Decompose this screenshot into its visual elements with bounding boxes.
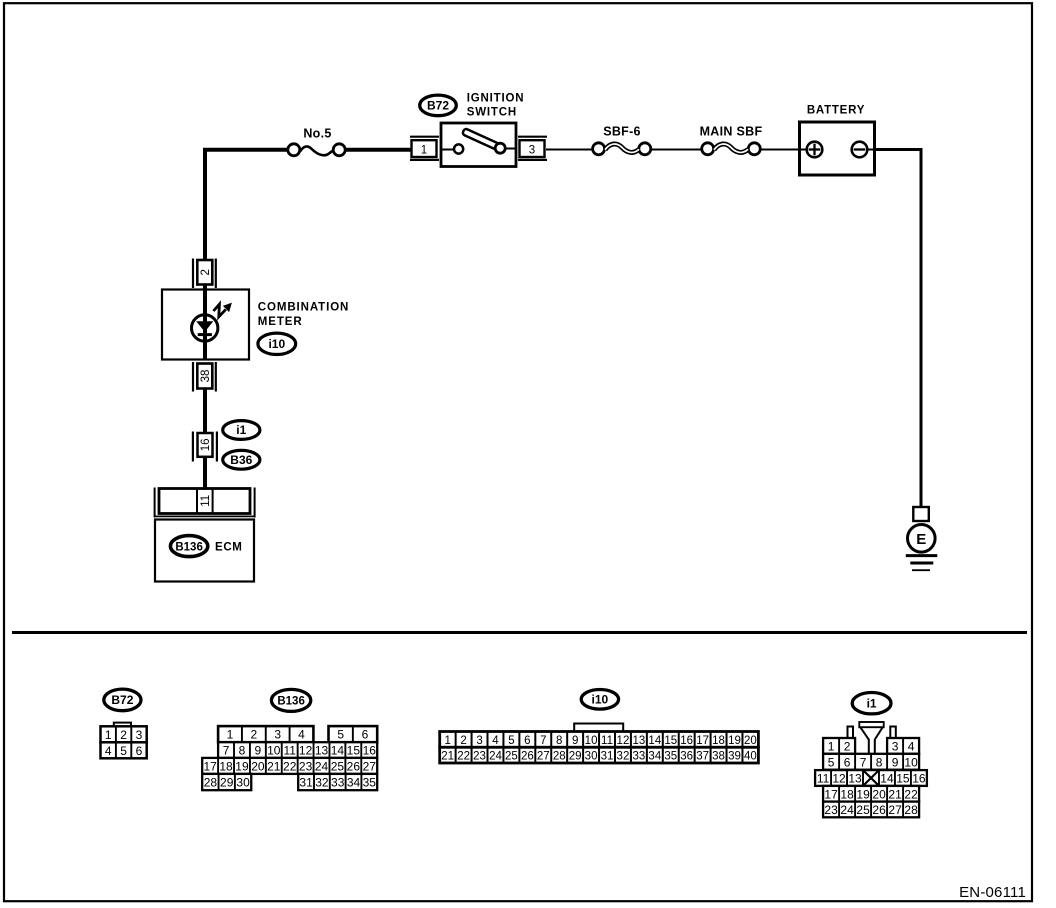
- wire: pin 16 to ECM pin 11: [203, 456, 207, 490]
- svg-text:24: 24: [315, 759, 329, 773]
- svg-text:2: 2: [251, 728, 258, 742]
- svg-text:2: 2: [200, 269, 212, 275]
- switch lever: [462, 128, 502, 151]
- svg-text:24: 24: [840, 803, 854, 817]
- svg-text:33: 33: [331, 776, 345, 790]
- svg-text:24: 24: [489, 751, 502, 763]
- svg-text:33: 33: [632, 751, 645, 763]
- svg-text:34: 34: [648, 751, 661, 763]
- connector oval i10 (pinout): [581, 690, 618, 710]
- svg-text:4: 4: [492, 735, 499, 747]
- svg-text:BATTERY: BATTERY: [807, 104, 865, 116]
- LED lamp (illumination): [192, 314, 218, 342]
- B136 pinout row 5-6: [329, 726, 378, 742]
- svg-text:16: 16: [363, 744, 377, 758]
- svg-text:22: 22: [904, 787, 918, 801]
- svg-text:8: 8: [239, 744, 246, 758]
- svg-text:1: 1: [105, 728, 112, 742]
- LED emission arrow: [213, 303, 232, 317]
- battery: [800, 122, 875, 175]
- connector oval B72: [420, 95, 457, 116]
- svg-text:31: 31: [299, 776, 313, 790]
- svg-text:SWITCH: SWITCH: [467, 106, 517, 118]
- svg-text:13: 13: [315, 744, 329, 758]
- wire: ignition switch pin 3 to SBF-6 fuse: [546, 149, 593, 151]
- svg-text:30: 30: [585, 751, 598, 763]
- svg-text:14: 14: [880, 772, 894, 786]
- connector oval B36: [223, 450, 260, 469]
- svg-text:23: 23: [473, 751, 486, 763]
- svg-text:i1: i1: [236, 423, 246, 437]
- svg-text:21: 21: [267, 759, 281, 773]
- svg-text:18: 18: [712, 735, 725, 747]
- svg-text:18: 18: [219, 759, 233, 773]
- svg-text:5: 5: [337, 728, 344, 742]
- svg-text:9: 9: [892, 755, 899, 769]
- svg-text:13: 13: [848, 772, 862, 786]
- svg-text:i10: i10: [268, 337, 285, 351]
- wire through meter: [203, 289, 207, 360]
- svg-text:10: 10: [267, 744, 281, 758]
- ground symbol: [906, 556, 938, 571]
- svg-text:12: 12: [299, 744, 313, 758]
- connector pin 3 (ignition switch): [518, 137, 547, 160]
- connector oval i1 (pinout): [852, 693, 891, 714]
- svg-text:7: 7: [860, 755, 867, 769]
- svg-text:20: 20: [744, 735, 757, 747]
- i1 latch tab left: [848, 727, 854, 739]
- connector pin 1 (ignition switch): [410, 137, 439, 160]
- svg-text:26: 26: [521, 751, 534, 763]
- svg-text:25: 25: [331, 759, 345, 773]
- svg-text:25: 25: [505, 751, 518, 763]
- svg-text:22: 22: [457, 751, 470, 763]
- svg-text:B136: B136: [175, 541, 203, 553]
- svg-text:No.5: No.5: [303, 127, 331, 141]
- svg-text:32: 32: [617, 751, 630, 763]
- wire: thick battery-feed from fuse No.5 corner down to combination meter pin 2: [205, 150, 287, 260]
- i1 pinout row 11-16 with blocked key cell: [815, 770, 927, 786]
- wire: battery negative to ground E: [874, 150, 921, 508]
- ignition switch U1 box: [441, 123, 516, 167]
- svg-text:20: 20: [872, 787, 886, 801]
- svg-text:4: 4: [298, 728, 305, 742]
- svg-text:METER: METER: [258, 316, 303, 328]
- svg-text:26: 26: [872, 803, 886, 817]
- svg-text:35: 35: [664, 751, 677, 763]
- svg-text:B72: B72: [427, 99, 449, 113]
- wire: MAIN SBF to battery positive: [760, 149, 800, 151]
- svg-text:21: 21: [888, 787, 902, 801]
- svg-text:12: 12: [617, 735, 630, 747]
- battery minus terminal: [852, 142, 868, 158]
- svg-text:11: 11: [200, 495, 212, 507]
- connector oval i10: [258, 333, 296, 354]
- svg-text:3: 3: [274, 728, 281, 742]
- ECM connector bracket: [154, 488, 255, 518]
- wire: meter pin 38 to joint connector pin 16: [203, 388, 207, 434]
- ECM box: [155, 520, 254, 582]
- svg-text:COMBINATION: COMBINATION: [258, 301, 349, 313]
- svg-text:22: 22: [283, 759, 297, 773]
- ECM connector strip with pin 11: [159, 489, 250, 514]
- combination meter box: [162, 290, 249, 360]
- svg-text:28: 28: [204, 776, 218, 790]
- B136 pinout row 1-4: [218, 726, 313, 742]
- i1 key cell X: [863, 770, 879, 786]
- svg-text:17: 17: [203, 759, 217, 773]
- svg-text:4: 4: [908, 739, 915, 753]
- label COMBINATION METER: [258, 301, 349, 328]
- svg-text:28: 28: [553, 751, 566, 763]
- B72 pinout grid row 4-6: [101, 742, 147, 758]
- B72 pinout grid row 1-3: [101, 726, 147, 742]
- svg-text:17: 17: [824, 787, 838, 801]
- svg-text:8: 8: [556, 735, 562, 747]
- B136 pinout row 17-27: [202, 758, 377, 774]
- svg-text:11: 11: [817, 772, 830, 786]
- i1 pinout row 5-10: [823, 754, 919, 770]
- svg-text:32: 32: [315, 776, 329, 790]
- svg-text:6: 6: [844, 755, 851, 769]
- svg-text:30: 30: [236, 776, 250, 790]
- svg-text:10: 10: [585, 735, 598, 747]
- svg-text:20: 20: [251, 759, 265, 773]
- B136 pinout row 28-30: [202, 774, 251, 790]
- svg-text:B36: B36: [230, 453, 252, 467]
- fuse MAIN SBF: [702, 143, 761, 155]
- svg-text:EN-06111: EN-06111: [959, 884, 1026, 901]
- svg-text:27: 27: [363, 759, 377, 773]
- svg-text:15: 15: [347, 744, 361, 758]
- svg-text:1: 1: [828, 739, 835, 753]
- connector oval B136 (ECM): [170, 536, 207, 557]
- svg-text:21: 21: [441, 751, 454, 763]
- svg-text:19: 19: [728, 735, 741, 747]
- connector pin 38 (combination meter): [193, 362, 216, 392]
- wire: thick from fuse No.5 to ignition switch pin 1: [345, 148, 411, 152]
- svg-text:1: 1: [444, 735, 450, 747]
- connector pin 2 (combination meter): [193, 259, 216, 289]
- label IGNITION SWITCH: [467, 93, 525, 119]
- svg-text:i1: i1: [867, 696, 877, 710]
- svg-text:13: 13: [632, 735, 645, 747]
- wire into ECM pin 11: [203, 486, 207, 490]
- fuse No.5: [288, 144, 345, 156]
- connector pin 16 (joint connector): [193, 432, 217, 462]
- svg-text:36: 36: [680, 751, 693, 763]
- svg-text:2: 2: [844, 739, 851, 753]
- svg-text:1: 1: [227, 728, 234, 742]
- svg-text:23: 23: [299, 759, 313, 773]
- svg-text:6: 6: [524, 735, 530, 747]
- svg-text:14: 14: [331, 744, 345, 758]
- svg-text:38: 38: [200, 370, 212, 383]
- svg-text:3: 3: [476, 735, 482, 747]
- svg-text:4: 4: [105, 744, 112, 758]
- svg-text:27: 27: [888, 803, 902, 817]
- svg-text:B72: B72: [111, 693, 133, 707]
- i10 latch tab: [574, 724, 623, 733]
- wire: meter pin 2 stub: [203, 284, 207, 291]
- svg-text:3: 3: [892, 739, 899, 753]
- i10 pinout row 21-40: [440, 747, 759, 763]
- svg-text:5: 5: [508, 735, 514, 747]
- svg-text:6: 6: [362, 728, 369, 742]
- svg-text:10: 10: [904, 755, 918, 769]
- ground connector box: [913, 507, 929, 521]
- svg-text:18: 18: [840, 787, 854, 801]
- svg-text:3: 3: [529, 145, 535, 157]
- i1 keying funnel: [859, 722, 883, 754]
- svg-text:16: 16: [200, 439, 212, 452]
- B136 pinout row 7-16: [218, 742, 377, 758]
- i1 pinout row 17-22: [823, 786, 919, 802]
- svg-text:26: 26: [347, 759, 361, 773]
- svg-text:29: 29: [220, 776, 234, 790]
- i10 pinout row 1-20: [440, 732, 759, 748]
- i1 pinout row 23-28: [823, 802, 919, 818]
- svg-text:5: 5: [828, 755, 835, 769]
- connector oval i1: [223, 421, 260, 440]
- svg-text:19: 19: [856, 787, 870, 801]
- svg-text:15: 15: [664, 735, 677, 747]
- wire: SBF-6 to MAIN SBF: [651, 149, 702, 151]
- svg-text:19: 19: [235, 759, 249, 773]
- svg-text:38: 38: [712, 751, 725, 763]
- svg-text:6: 6: [136, 744, 143, 758]
- svg-text:39: 39: [728, 751, 741, 763]
- svg-text:35: 35: [363, 776, 377, 790]
- svg-text:B136: B136: [277, 696, 305, 708]
- battery plus terminal: [807, 142, 823, 158]
- fuse SBF-6: [593, 143, 651, 155]
- svg-text:7: 7: [540, 735, 546, 747]
- svg-text:14: 14: [648, 735, 661, 747]
- svg-text:12: 12: [832, 772, 846, 786]
- svg-text:9: 9: [572, 735, 578, 747]
- svg-text:27: 27: [537, 751, 550, 763]
- connector oval B136 (pinout): [271, 689, 310, 711]
- svg-text:5: 5: [120, 744, 127, 758]
- svg-text:7: 7: [223, 744, 230, 758]
- svg-text:SBF-6: SBF-6: [603, 125, 641, 139]
- svg-text:16: 16: [912, 772, 926, 786]
- B72 connector latch tab: [114, 723, 131, 727]
- svg-text:11: 11: [601, 735, 613, 747]
- svg-text:2: 2: [120, 728, 127, 742]
- connector oval B72 (pinout): [104, 689, 141, 711]
- svg-text:11: 11: [283, 744, 296, 758]
- svg-text:31: 31: [601, 751, 614, 763]
- svg-text:ECM: ECM: [215, 542, 243, 554]
- B136 pinout row 31-35: [298, 774, 377, 790]
- svg-text:3: 3: [136, 728, 143, 742]
- svg-text:15: 15: [896, 772, 910, 786]
- svg-text:40: 40: [744, 751, 757, 763]
- svg-text:37: 37: [696, 751, 709, 763]
- svg-text:9: 9: [255, 744, 262, 758]
- svg-text:IGNITION: IGNITION: [467, 93, 525, 105]
- svg-text:17: 17: [696, 735, 709, 747]
- svg-text:23: 23: [824, 803, 838, 817]
- svg-text:34: 34: [347, 776, 361, 790]
- ground E circle: [908, 525, 936, 553]
- svg-text:29: 29: [569, 751, 582, 763]
- switch contact circle: [454, 144, 463, 153]
- i1 latch tab right: [890, 727, 896, 739]
- svg-text:28: 28: [904, 803, 918, 817]
- svg-text:E: E: [916, 531, 926, 548]
- svg-text:2: 2: [460, 735, 466, 747]
- i1 pinout row 3-4: [887, 738, 919, 754]
- svg-text:16: 16: [680, 735, 693, 747]
- section divider line: [12, 631, 1027, 634]
- svg-text:i10: i10: [592, 693, 609, 707]
- svg-text:1: 1: [421, 145, 427, 157]
- i1 pinout row 1-2: [823, 738, 855, 754]
- svg-text:8: 8: [876, 755, 883, 769]
- svg-text:MAIN SBF: MAIN SBF: [700, 125, 763, 139]
- svg-text:25: 25: [856, 803, 870, 817]
